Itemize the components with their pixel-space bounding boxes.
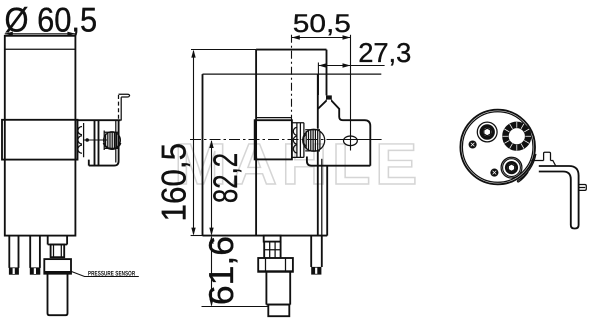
- long reference line y74: [203, 73, 382, 75]
- bracket arm top view: [539, 166, 579, 229]
- sensor body front view: [48, 274, 68, 316]
- port top-left: [477, 122, 497, 142]
- port bottom: [501, 157, 522, 178]
- clamp band front view: [2, 120, 78, 160]
- bracket plate top view: [531, 161, 556, 167]
- svg-text:50,5: 50,5: [293, 10, 351, 38]
- sensor ring front view: [44, 259, 71, 274]
- fitting top block bottom view: [264, 236, 281, 242]
- dimension text 82,2: [207, 153, 245, 203]
- dimension line 50,5: [292, 37, 351, 39]
- inner line right: [321, 159, 323, 236]
- dimension line 27,3: [318, 65, 384, 67]
- sensor connector side view: [268, 305, 289, 317]
- pipe 1 cap: [9, 267, 19, 274]
- label PRESSURE SENSOR: [88, 271, 135, 278]
- body side view left edge: [202, 74, 204, 236]
- body bottom edge: [191, 235, 203, 237]
- extension line dash-dot at valve block: [291, 35, 293, 120]
- valve scallops front view: [78, 123, 84, 157]
- arrow right of Ø 60,5: [67, 32, 75, 36]
- sensor body side view: [266, 272, 290, 305]
- valve center dot: [85, 138, 89, 142]
- bracket hook front view: [118, 95, 120, 121]
- extension line 61,6 bottom: [202, 306, 269, 308]
- dimension line 61,6: [211, 237, 213, 305]
- body side view inner edge: [255, 50, 257, 236]
- valve center line to knob: [83, 139, 107, 141]
- extension line at bracket hole: [350, 35, 352, 151]
- sensor stem front view: [48, 236, 67, 245]
- valve knob side view: [303, 129, 325, 151]
- dimension text 160,5: [156, 143, 194, 222]
- bracket clamp strap: [517, 154, 536, 182]
- rivet dot 2: [490, 169, 498, 177]
- top cap seam: [5, 48, 76, 50]
- pipe 2 cap: [30, 267, 41, 274]
- dimension text Ø 60,5: [5, 1, 98, 39]
- body side view right edge: [317, 74, 319, 236]
- main centerline: [190, 139, 336, 141]
- dimension text 50,5: [293, 10, 351, 38]
- bracket hole: [344, 136, 358, 146]
- svg-text:27,3: 27,3: [358, 37, 411, 68]
- rivet dot 1: [469, 140, 477, 148]
- bracket tab top view: [544, 152, 551, 160]
- outer right edge: [326, 50, 329, 236]
- svg-text:PRESSURE SENSOR: PRESSURE SENSOR: [88, 271, 135, 278]
- can outline top view: [460, 110, 535, 185]
- valve stem side view: [292, 123, 304, 158]
- pipe 2 front view: [30, 236, 40, 268]
- valve knob front view: [104, 132, 121, 149]
- valve scallops side view: [293, 127, 297, 153]
- dimension text 61,6: [203, 236, 241, 305]
- bracket profile side view: [307, 101, 370, 166]
- dimension line 82,2: [211, 141, 213, 234]
- pipe 1 front view: [9, 236, 18, 268]
- MAHLE watermark: [174, 132, 422, 197]
- sensor hex side view: [258, 258, 293, 272]
- port top-right: [505, 125, 528, 148]
- sensor hex front view: [51, 245, 65, 258]
- extension line 27,3 left: [317, 63, 319, 96]
- valve block front view: [78, 120, 121, 165]
- arrow left of Ø 60,5: [5, 32, 13, 36]
- bracket stub pin: [579, 185, 587, 191]
- bracket tab side view: [326, 95, 332, 99]
- right pipe side view: [311, 236, 322, 267]
- leader line pressure sensor: [71, 271, 139, 276]
- top edge and 160,5 extension: [191, 49, 256, 51]
- dimension line 160,5: [193, 51, 195, 234]
- fitting stud: [264, 242, 280, 258]
- valve block side view: [255, 120, 292, 159]
- receiver body front view: [5, 36, 76, 236]
- svg-text:160,5: 160,5: [156, 143, 194, 222]
- svg-text:61,6: 61,6: [203, 236, 241, 305]
- svg-text:82,2: 82,2: [207, 153, 245, 203]
- dimension line Ø 60,5: [5, 33, 76, 35]
